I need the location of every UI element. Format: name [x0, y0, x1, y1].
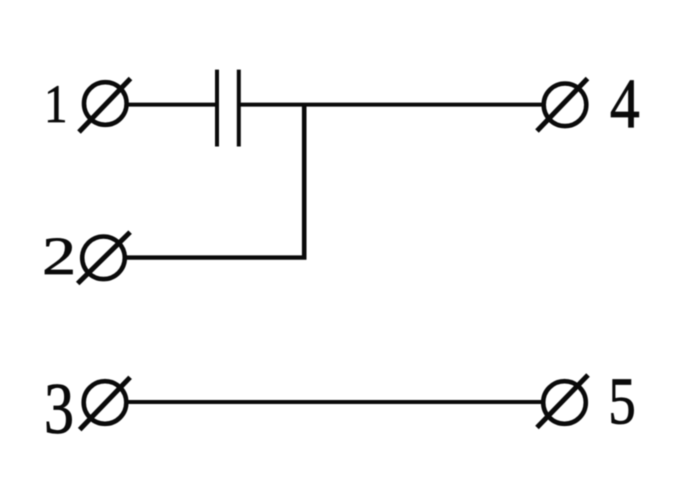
pin label 2 [42, 227, 76, 286]
terminal 1 [79, 79, 131, 133]
svg-text:1: 1 [44, 74, 68, 134]
wire terminal 3 to terminal 5 [127, 400, 543, 404]
pin label 3 [44, 370, 74, 450]
terminal 5 [537, 375, 588, 428]
wire junction vertical drop [302, 105, 307, 258]
pin label 4 [610, 65, 640, 143]
pin label 5 [608, 365, 636, 439]
wire capacitor to terminal 4 [239, 103, 545, 107]
svg-text:5: 5 [608, 365, 636, 439]
terminal 4 [537, 79, 588, 132]
svg-text:3: 3 [44, 370, 74, 450]
wire terminal1 to capacitor C [127, 103, 216, 107]
pin label 1 [44, 74, 68, 134]
capacitor C left plate [215, 70, 219, 147]
terminal 3 [80, 377, 130, 429]
wire terminal 2 to junction [126, 255, 307, 259]
svg-text:4: 4 [610, 65, 640, 143]
svg-text:2: 2 [42, 227, 76, 286]
terminal 2 [78, 232, 130, 283]
capacitor C right plate [237, 70, 241, 147]
